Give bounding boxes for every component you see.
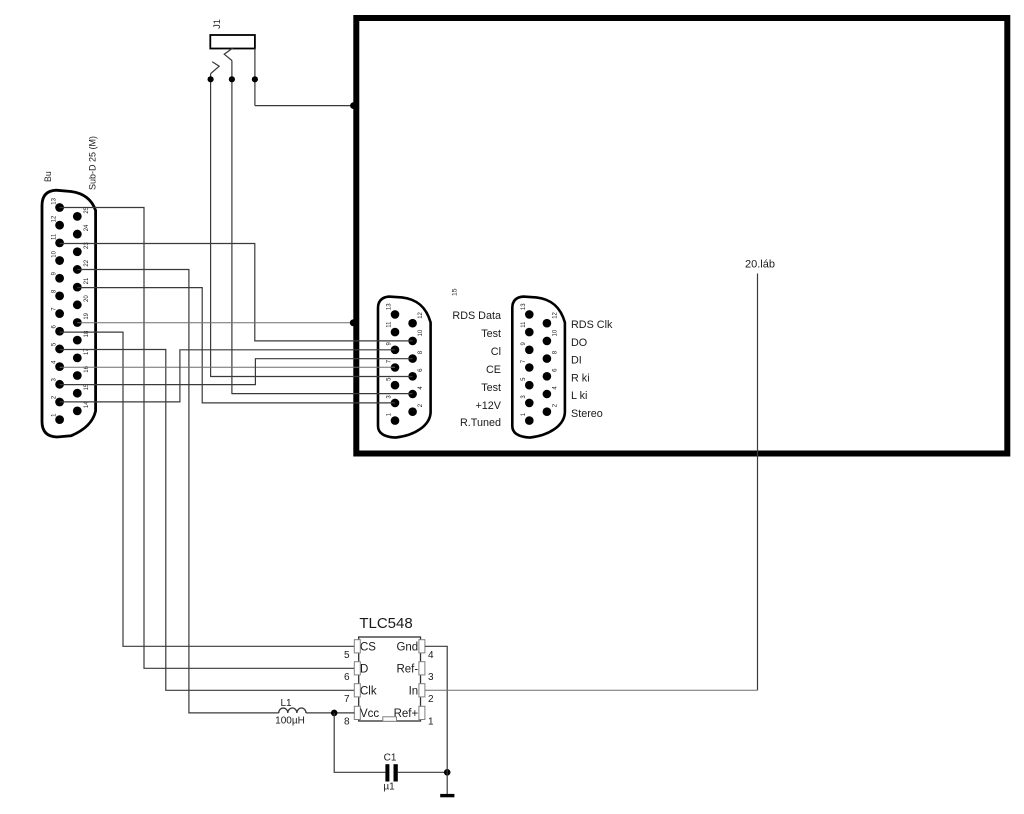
U1 pin 1 stub bbox=[419, 706, 425, 719]
wire J1 pin1 down bbox=[210, 74, 212, 378]
svg-text:10: 10 bbox=[51, 250, 57, 257]
svg-text:12: 12 bbox=[51, 215, 57, 222]
X2 (right) pin 1 bbox=[525, 416, 534, 425]
svg-text:Ref+: Ref+ bbox=[394, 708, 419, 720]
svg-text:12: 12 bbox=[553, 311, 559, 318]
svg-text:TLC548: TLC548 bbox=[359, 615, 412, 632]
svg-text:3: 3 bbox=[428, 672, 434, 683]
X2 (right) pin 12 bbox=[543, 319, 552, 328]
X1 (left) pin 6 bbox=[408, 372, 417, 381]
wire Bu11 to X1 pin10 bbox=[60, 244, 413, 341]
svg-text:12: 12 bbox=[418, 311, 424, 318]
X1 (left) pin 5 bbox=[391, 381, 400, 390]
capacitor C1 plate left bbox=[385, 764, 389, 781]
svg-text:Test: Test bbox=[481, 328, 501, 340]
U1 pin 3 stub bbox=[419, 662, 425, 675]
X2 (right) pin 7 bbox=[525, 363, 534, 372]
U1 notch bbox=[383, 717, 397, 722]
svg-text:C1: C1 bbox=[384, 753, 397, 764]
X1 (left) pin 1 bbox=[391, 416, 400, 425]
wire L1 to Vcc bbox=[306, 712, 355, 714]
wire J1 pin2 down bbox=[231, 61, 233, 395]
X1 (left) pin 12 bbox=[408, 319, 417, 328]
svg-text:5: 5 bbox=[344, 650, 350, 661]
X2 (right) pin 8 bbox=[543, 354, 552, 363]
wire Bu6 to TLC548 CS bbox=[60, 332, 355, 646]
U1 pin 2 stub bbox=[419, 684, 425, 697]
wire Vcc junction down to C1 bbox=[334, 713, 385, 772]
svg-text:13: 13 bbox=[387, 303, 393, 310]
svg-text:1: 1 bbox=[428, 716, 434, 727]
Bu pin 12 bbox=[55, 221, 64, 230]
svg-text:L ki: L ki bbox=[571, 390, 587, 402]
svg-text:Bu: Bu bbox=[43, 171, 53, 182]
wire Bu19 to box border bbox=[77, 322, 355, 324]
Bu pin 25 bbox=[73, 212, 82, 221]
svg-text:CE: CE bbox=[486, 364, 501, 376]
svg-text:11: 11 bbox=[51, 233, 57, 240]
Bu pin 16 bbox=[73, 371, 82, 380]
inductor L1 bbox=[279, 708, 306, 713]
wire 20.lab down bbox=[757, 274, 759, 691]
svg-text:In: In bbox=[409, 686, 419, 698]
wire C1 to ground junction bbox=[398, 771, 447, 773]
Bu pin 24 bbox=[73, 230, 82, 239]
X2 (right) pin 5 bbox=[525, 381, 534, 390]
Bu pin 3 bbox=[55, 380, 64, 389]
wire Bu21 to X1 pin3 bbox=[77, 288, 395, 403]
svg-text:Sub-D 25 (M): Sub-D 25 (M) bbox=[88, 136, 98, 190]
svg-text:10: 10 bbox=[553, 329, 559, 336]
junction J1 pin1 bbox=[208, 76, 214, 82]
svg-text:Clk: Clk bbox=[360, 686, 377, 698]
Bu pin 2 bbox=[55, 398, 64, 407]
Bu pin 4 bbox=[55, 362, 64, 371]
Bu pin 14 bbox=[73, 406, 82, 415]
Bu pin 8 bbox=[55, 292, 64, 301]
X1 (left) pin 4 bbox=[408, 390, 417, 399]
svg-text:L1: L1 bbox=[280, 698, 292, 709]
Bu pin 9 bbox=[55, 274, 64, 283]
svg-text:18: 18 bbox=[84, 330, 90, 337]
svg-text:Cl: Cl bbox=[491, 346, 501, 358]
X1 (left) pin 9 bbox=[391, 346, 400, 355]
Bu pin 17 bbox=[73, 353, 82, 362]
U1 pin 8 stub bbox=[354, 706, 360, 719]
Bu pin 15 bbox=[73, 389, 82, 398]
box radio unit outline bbox=[356, 18, 1007, 454]
svg-text:13: 13 bbox=[51, 197, 57, 204]
Bu pin 21 bbox=[73, 283, 82, 292]
wire junction to ground bbox=[446, 772, 448, 794]
X2 (right) pin 11 bbox=[525, 328, 534, 337]
wire J1 pin1 to X1 pin6 bbox=[211, 376, 413, 378]
svg-text:R.Tuned: R.Tuned bbox=[460, 417, 501, 429]
X2 (right) pin 9 bbox=[525, 346, 534, 355]
svg-text:22: 22 bbox=[84, 259, 90, 266]
connector X1 (left) outline bbox=[378, 297, 431, 438]
svg-text:10: 10 bbox=[418, 329, 424, 336]
svg-text:DO: DO bbox=[571, 337, 587, 349]
X1 (left) pin 2 bbox=[408, 407, 417, 416]
wire Bu3 to X1 pin8 bbox=[60, 359, 413, 385]
junction Vcc/C1 bbox=[331, 710, 338, 717]
X2 (right) pin 4 bbox=[543, 390, 552, 399]
svg-text:11: 11 bbox=[521, 321, 527, 328]
wire Bu22 to L1/Vcc bbox=[77, 270, 278, 713]
wire Gnd pin to junction bbox=[425, 646, 447, 772]
connector Bu Sub-D 25 (M) outline bbox=[42, 190, 96, 437]
Bu pin 7 bbox=[55, 309, 64, 318]
X1 (left) pin 11 bbox=[391, 328, 400, 337]
svg-text:15: 15 bbox=[452, 288, 459, 296]
junction Bu19 on box border bbox=[350, 319, 357, 326]
svg-text:DI: DI bbox=[571, 355, 582, 367]
wire Bu5 to TLC548 Clk bbox=[60, 350, 355, 691]
wire J1 pin3 to box bbox=[255, 105, 355, 107]
U1 pin 5 stub bbox=[354, 640, 360, 653]
svg-text:+12V: +12V bbox=[475, 400, 501, 412]
svg-text:13: 13 bbox=[521, 303, 527, 310]
svg-text:J1: J1 bbox=[212, 19, 222, 29]
X1 (left) pin 13 bbox=[391, 310, 400, 319]
Bu pin 20 bbox=[73, 300, 82, 309]
svg-text:CS: CS bbox=[360, 642, 376, 654]
svg-text:4: 4 bbox=[428, 650, 434, 661]
J1 contact 1 (open) bbox=[211, 62, 219, 74]
junction J1 pin2 bbox=[229, 76, 235, 82]
svg-text:Stereo: Stereo bbox=[571, 408, 603, 420]
svg-text:23: 23 bbox=[84, 242, 90, 249]
svg-text:D: D bbox=[360, 664, 368, 676]
svg-text:RDS Clk: RDS Clk bbox=[571, 319, 613, 331]
junction J1 pin3 bbox=[252, 76, 258, 82]
U1 pin 6 stub bbox=[354, 662, 360, 675]
svg-text:µ1: µ1 bbox=[383, 782, 395, 793]
X2 (right) pin 6 bbox=[543, 372, 552, 381]
X1 (left) pin 7 bbox=[391, 363, 400, 372]
svg-text:RDS Data: RDS Data bbox=[452, 310, 501, 322]
Bu pin 11 bbox=[55, 238, 64, 247]
IC U1 TLC548 body bbox=[359, 637, 421, 721]
U1 pin 4 stub bbox=[419, 640, 425, 653]
X2 (right) pin 2 bbox=[543, 407, 552, 416]
svg-text:R ki: R ki bbox=[571, 372, 590, 384]
svg-text:Vcc: Vcc bbox=[360, 708, 379, 720]
Bu pin 13 bbox=[55, 203, 64, 212]
wire Bu13 to TLC548 D bbox=[60, 208, 355, 669]
ground symbol bbox=[440, 794, 454, 797]
X1 (left) pin 8 bbox=[408, 354, 417, 363]
junction on box border (J1) bbox=[350, 102, 357, 109]
Bu pin 23 bbox=[73, 247, 82, 256]
X2 (right) pin 10 bbox=[543, 337, 552, 346]
capacitor C1 plate right bbox=[394, 764, 398, 781]
Bu pin 5 bbox=[55, 345, 64, 354]
Bu pin 10 bbox=[55, 256, 64, 265]
svg-text:20.láb: 20.láb bbox=[745, 259, 775, 271]
svg-text:7: 7 bbox=[344, 694, 350, 705]
Bu pin 6 bbox=[55, 327, 64, 336]
J1 contact 2 (closed) bbox=[224, 48, 233, 61]
X1 (left) pin 3 bbox=[391, 399, 400, 408]
svg-text:21: 21 bbox=[84, 277, 90, 284]
connector J1 body bbox=[210, 35, 255, 49]
svg-text:100µH: 100µH bbox=[275, 716, 305, 727]
svg-text:11: 11 bbox=[387, 321, 393, 328]
wire Bu4 to X1 pin7 bbox=[60, 366, 395, 368]
wire J1 pin2 to X1 pin4 bbox=[232, 393, 413, 395]
wire Bu2 to X1 pin9 bbox=[60, 350, 395, 402]
svg-text:2: 2 bbox=[428, 694, 434, 705]
svg-text:17: 17 bbox=[84, 348, 90, 355]
X1 (left) pin 10 bbox=[408, 337, 417, 346]
Bu pin 1 bbox=[55, 415, 64, 424]
Bu pin 22 bbox=[73, 265, 82, 274]
U1 pin 7 stub bbox=[354, 684, 360, 697]
Bu pin 18 bbox=[73, 336, 82, 345]
junction C1/Gnd/ground bbox=[444, 769, 451, 776]
wire In pin to 20.lab bbox=[425, 689, 758, 691]
X2 (right) pin 3 bbox=[525, 399, 534, 408]
svg-text:20: 20 bbox=[84, 295, 90, 302]
svg-text:6: 6 bbox=[344, 672, 350, 683]
wire J1 pin3 down bbox=[254, 49, 256, 106]
svg-text:Test: Test bbox=[481, 382, 501, 394]
svg-text:Ref-: Ref- bbox=[396, 664, 418, 676]
svg-text:8: 8 bbox=[344, 716, 350, 727]
svg-text:16: 16 bbox=[84, 365, 90, 372]
X2 (right) pin 13 bbox=[525, 310, 534, 319]
connector X2 (right) outline bbox=[512, 297, 565, 438]
svg-text:24: 24 bbox=[84, 224, 90, 231]
svg-text:19: 19 bbox=[84, 312, 90, 319]
svg-text:Gnd: Gnd bbox=[396, 642, 418, 654]
Bu pin 19 bbox=[73, 318, 82, 327]
